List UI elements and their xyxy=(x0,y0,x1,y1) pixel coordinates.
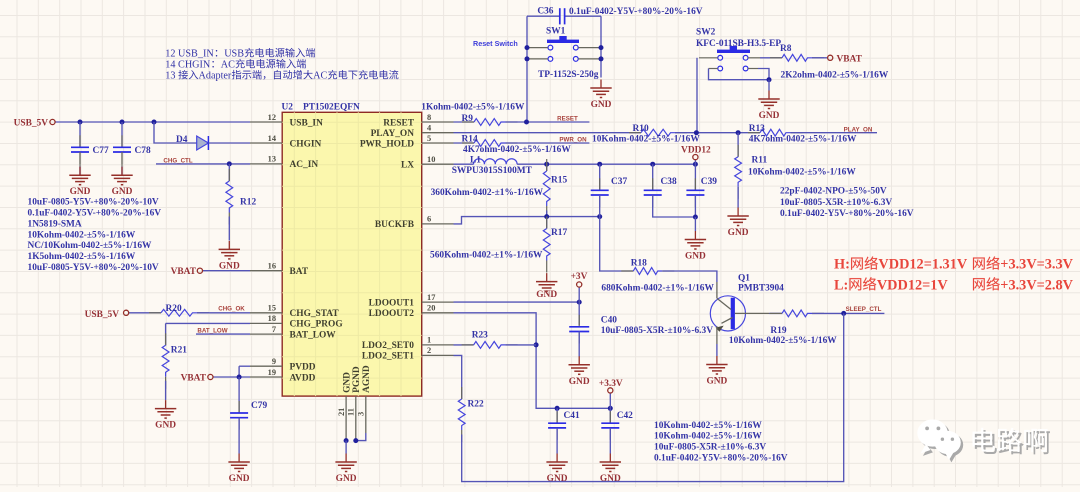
wire xyxy=(791,132,878,134)
svg-text:19: 19 xyxy=(268,368,276,377)
wire xyxy=(556,428,558,454)
wire xyxy=(578,302,580,325)
resistor R10 xyxy=(629,124,687,136)
svg-text:R12: R12 xyxy=(240,198,256,208)
svg-text:20: 20 xyxy=(427,304,435,313)
svg-text:USB: USB xyxy=(224,49,244,60)
capacitor C79 xyxy=(230,401,267,430)
junction xyxy=(608,406,613,411)
junction xyxy=(577,300,582,305)
svg-text:AVDD: AVDD xyxy=(290,373,316,383)
svg-text:AGND: AGND xyxy=(362,365,372,393)
svg-text:10uF-0805-X5R-±10%-6.3V: 10uF-0805-X5R-±10%-6.3V xyxy=(780,198,892,208)
wire xyxy=(526,16,528,122)
capacitor C39 xyxy=(686,177,717,207)
junction xyxy=(534,342,539,347)
svg-text:R18: R18 xyxy=(631,258,647,268)
ground xyxy=(536,273,557,300)
pin 12 USB_IN xyxy=(250,113,323,129)
pin 20 LDOOUT2 xyxy=(369,304,454,320)
svg-text:18: 18 xyxy=(268,314,276,323)
svg-text:4K7ohm-0402-±5%-1/16W: 4K7ohm-0402-±5%-1/16W xyxy=(463,145,571,155)
capacitor C42 xyxy=(601,411,633,440)
svg-text:PGND: PGND xyxy=(352,366,362,393)
svg-text:5: 5 xyxy=(427,134,431,143)
ground xyxy=(335,454,356,485)
pin 18 CHG_PROG xyxy=(250,314,343,330)
svg-text:6: 6 xyxy=(427,215,431,224)
svg-text:Q1: Q1 xyxy=(738,274,750,284)
wire xyxy=(565,15,601,17)
svg-text:CHG_STAT: CHG_STAT xyxy=(290,309,340,319)
switch SW1 xyxy=(529,27,599,81)
inductor L1 xyxy=(470,155,517,165)
svg-text:LDOOUT1: LDOOUT1 xyxy=(369,298,415,308)
svg-text:13: 13 xyxy=(268,155,276,164)
junction xyxy=(120,120,125,125)
junction xyxy=(227,161,232,166)
wire xyxy=(517,163,695,165)
wire xyxy=(653,195,696,217)
svg-text:+3.3V=2.8V: +3.3V=2.8V xyxy=(1000,277,1073,293)
junction xyxy=(736,130,741,135)
junction xyxy=(78,120,83,125)
junction xyxy=(599,56,604,61)
svg-text:Reset Switch: Reset Switch xyxy=(473,39,518,48)
wire xyxy=(454,344,474,346)
wire xyxy=(506,142,590,144)
resistor R14 xyxy=(462,135,518,147)
wire xyxy=(454,163,474,165)
resistor R22 xyxy=(458,387,484,442)
resistor R11 xyxy=(735,145,768,199)
junction xyxy=(525,56,530,61)
wire xyxy=(694,217,696,231)
wire xyxy=(156,163,250,165)
svg-text:AC_IN: AC_IN xyxy=(290,160,319,170)
resistor R23 xyxy=(462,331,518,349)
svg-text:PWR_HOLD: PWR_HOLD xyxy=(360,139,414,149)
wire xyxy=(462,313,844,481)
svg-text:AC: AC xyxy=(221,60,235,71)
svg-text:R20: R20 xyxy=(166,304,182,314)
wire xyxy=(121,122,123,147)
svg-text:GND: GND xyxy=(70,187,91,197)
svg-text:CHG_CTL: CHG_CTL xyxy=(163,157,192,164)
wire xyxy=(609,428,611,454)
svg-text:10Kohm-0402-±5%-1/16W: 10Kohm-0402-±5%-1/16W xyxy=(592,135,700,145)
svg-text:KFC-011SB-H3.5-EP: KFC-011SB-H3.5-EP xyxy=(696,39,781,49)
ground xyxy=(706,356,727,387)
svg-text:R17: R17 xyxy=(551,228,567,238)
wire xyxy=(228,164,230,181)
resistor R20 xyxy=(149,304,209,316)
svg-text:GND: GND xyxy=(155,421,176,431)
ground xyxy=(546,454,567,485)
ground xyxy=(569,356,590,387)
wire xyxy=(213,376,250,378)
ground xyxy=(219,241,240,272)
wire xyxy=(356,433,366,441)
svg-text:4K7ohm-0402-±5%-1/16W: 4K7ohm-0402-±5%-1/16W xyxy=(749,135,857,145)
svg-text:C77: C77 xyxy=(93,146,109,156)
svg-text:12 USB_IN: 12 USB_IN xyxy=(165,49,214,60)
svg-text:2K2ohm-0402-±5%-1/16W: 2K2ohm-0402-±5%-1/16W xyxy=(781,71,889,81)
svg-text:PVDD: PVDD xyxy=(290,363,316,373)
resistor R15 xyxy=(543,159,567,218)
wire xyxy=(79,122,81,147)
svg-text:16: 16 xyxy=(268,262,276,271)
wire xyxy=(737,187,739,208)
svg-text:C36: C36 xyxy=(537,7,553,17)
svg-text:GND: GND xyxy=(759,111,780,121)
power port VBAT xyxy=(181,374,213,384)
svg-text:RESET: RESET xyxy=(557,115,578,122)
wire xyxy=(228,217,230,241)
value labels C37 C38 C39 xyxy=(780,187,914,219)
power port VBAT xyxy=(171,267,203,277)
wire xyxy=(454,355,462,399)
ground xyxy=(155,400,176,431)
svg-text:21: 21 xyxy=(337,408,346,416)
resistor R9 xyxy=(462,114,518,126)
svg-text:10uF-0805-Y5V-+80%-20%-10V: 10uF-0805-Y5V-+80%-20%-10V xyxy=(28,263,159,273)
wire xyxy=(578,287,580,302)
svg-text:CHGIN: CHGIN xyxy=(290,139,322,149)
svg-text:10uF-0805-Y5V-+80%-20%-10V: 10uF-0805-Y5V-+80%-20%-10V xyxy=(28,198,159,208)
power port VDD12 xyxy=(681,146,711,160)
capacitor C41 xyxy=(548,411,580,440)
ground xyxy=(69,167,90,198)
wire xyxy=(600,217,634,271)
junction xyxy=(555,406,560,411)
junction xyxy=(693,215,698,220)
wire xyxy=(694,160,696,164)
svg-text:BAT: BAT xyxy=(290,267,309,277)
svg-text:12: 12 xyxy=(268,113,276,122)
wire xyxy=(454,132,642,134)
svg-text:10Kohm-0402-±5%-1/16W: 10Kohm-0402-±5%-1/16W xyxy=(729,336,837,346)
wire xyxy=(716,344,718,356)
pin 6 BUCKFB xyxy=(375,215,454,231)
svg-text:GND: GND xyxy=(342,372,352,393)
wire xyxy=(546,217,548,229)
power port +3.3V xyxy=(599,379,623,393)
wire xyxy=(454,217,600,224)
svg-text:R15: R15 xyxy=(551,176,567,186)
svg-text:C79: C79 xyxy=(251,401,267,411)
svg-text:PMBT3904: PMBT3904 xyxy=(738,284,784,294)
svg-text:LDO2_SET1: LDO2_SET1 xyxy=(362,352,414,362)
svg-text:680Kohm-0402-±1%-1/16W: 680Kohm-0402-±1%-1/16W xyxy=(601,283,714,293)
wire xyxy=(812,57,828,59)
svg-text:GND: GND xyxy=(728,228,749,238)
svg-text:11: 11 xyxy=(347,408,356,416)
wire xyxy=(196,333,250,335)
svg-text:C78: C78 xyxy=(135,146,151,156)
wire xyxy=(454,142,475,144)
svg-text:9: 9 xyxy=(272,357,276,366)
note annotation xyxy=(165,48,398,82)
ground xyxy=(228,454,249,485)
resistor R8 xyxy=(770,44,824,61)
svg-text:7: 7 xyxy=(272,325,276,334)
svg-text:USB_IN: USB_IN xyxy=(290,118,324,128)
junction xyxy=(767,77,772,82)
wire xyxy=(129,312,161,314)
value labels R22 R23 C41 C42 xyxy=(654,421,788,464)
power port +3V xyxy=(571,272,588,287)
svg-text:SW2: SW2 xyxy=(696,28,716,38)
pin 3 AGND xyxy=(357,365,372,433)
svg-text:BAT_LOW: BAT_LOW xyxy=(197,327,227,334)
wire xyxy=(546,164,548,171)
wire xyxy=(345,441,347,454)
svg-text:VDD12: VDD12 xyxy=(681,146,711,156)
pin 17 LDOOUT1 xyxy=(369,293,454,309)
svg-text:560Kohm-0402-±1%-1/16W: 560Kohm-0402-±1%-1/16W xyxy=(430,250,543,260)
capacitor C38 xyxy=(644,177,677,207)
wire xyxy=(675,132,760,134)
ground xyxy=(758,91,779,122)
wire xyxy=(609,393,611,408)
pin 9 PVDD xyxy=(250,357,316,373)
svg-text:GND: GND xyxy=(685,252,706,262)
junction xyxy=(544,214,549,219)
resistor R19 xyxy=(770,310,824,336)
svg-text:BAT_LOW: BAT_LOW xyxy=(290,330,337,340)
svg-text:2: 2 xyxy=(427,346,431,355)
svg-text:LX: LX xyxy=(401,161,414,171)
pin 21 GND xyxy=(337,372,352,441)
ground xyxy=(600,454,621,485)
wire xyxy=(238,366,240,377)
pin 11 PGND xyxy=(347,366,362,440)
wire xyxy=(166,322,250,324)
svg-text:GND: GND xyxy=(569,377,590,387)
svg-text:10Kohm-0402-±5%-1/16W: 10Kohm-0402-±5%-1/16W xyxy=(28,230,136,240)
junction xyxy=(237,375,242,380)
capacitor C40 xyxy=(569,315,617,344)
svg-text:CHG_PROG: CHG_PROG xyxy=(290,320,344,330)
svg-text:C40: C40 xyxy=(601,315,617,325)
svg-text:360Kohm-0402-±1%-1/16W: 360Kohm-0402-±1%-1/16W xyxy=(431,188,544,198)
resistor R18 xyxy=(621,258,674,274)
svg-text:SLEEP_CTL: SLEEP_CTL xyxy=(846,306,882,313)
svg-text:C42: C42 xyxy=(617,411,633,421)
svg-text:PWR_ON: PWR_ON xyxy=(559,137,587,144)
wire xyxy=(600,16,602,77)
wire xyxy=(662,271,717,282)
svg-text:10uF-0805-X5R-±10%-6.3V: 10uF-0805-X5R-±10%-6.3V xyxy=(654,443,766,453)
svg-text:GND: GND xyxy=(219,261,240,271)
wire xyxy=(506,344,536,346)
svg-text:L1: L1 xyxy=(470,155,481,165)
svg-text:17: 17 xyxy=(427,293,435,302)
pin 8 RESET xyxy=(383,113,453,129)
junction xyxy=(694,130,699,135)
svg-text:R9: R9 xyxy=(462,114,474,124)
svg-text:22pF-0402-NPO-±5%-50V: 22pF-0402-NPO-±5%-50V xyxy=(780,187,887,197)
svg-text:10Kohm-0402-±5%-1/16W: 10Kohm-0402-±5%-1/16W xyxy=(654,421,762,431)
pin 10 LX xyxy=(401,155,454,171)
svg-text:PLAY_ON: PLAY_ON xyxy=(844,126,873,133)
svg-text:10: 10 xyxy=(427,155,435,164)
svg-text:USB_5V: USB_5V xyxy=(85,310,120,320)
junction xyxy=(152,120,157,125)
svg-text:GND: GND xyxy=(536,290,557,300)
wire xyxy=(56,121,251,123)
svg-text:TP-1152S-250g: TP-1152S-250g xyxy=(538,70,599,80)
svg-text:GND: GND xyxy=(112,187,133,197)
capacitor C78 xyxy=(113,135,151,166)
wire xyxy=(238,418,240,454)
wire xyxy=(609,408,611,423)
svg-text:R11: R11 xyxy=(752,156,768,166)
pin 4 PLAY_ON xyxy=(371,124,454,140)
pin 19 AVDD xyxy=(250,368,316,384)
svg-text:GND: GND xyxy=(229,474,250,484)
wire xyxy=(208,142,250,144)
svg-text:VBAT: VBAT xyxy=(181,374,207,384)
junction xyxy=(693,162,698,167)
wire xyxy=(652,164,654,190)
resistor R21 xyxy=(162,333,187,389)
junction xyxy=(841,311,846,316)
svg-text:R21: R21 xyxy=(171,345,187,355)
svg-text:L:: L: xyxy=(834,277,848,293)
wire xyxy=(770,312,783,314)
svg-text:13: 13 xyxy=(165,71,175,82)
wire xyxy=(758,69,769,80)
wire xyxy=(812,312,884,314)
junction xyxy=(650,162,655,167)
svg-text:3: 3 xyxy=(357,412,366,416)
svg-text:C39: C39 xyxy=(701,177,717,187)
junction xyxy=(597,162,602,167)
svg-text:1Kohm-0402-±5%-1/16W: 1Kohm-0402-±5%-1/16W xyxy=(421,103,525,113)
svg-text:R19: R19 xyxy=(770,326,786,336)
wire xyxy=(737,133,739,157)
transistor Q1 PMBT3904 xyxy=(710,274,784,345)
wire xyxy=(79,167,81,176)
svg-text:SW1: SW1 xyxy=(546,27,566,37)
capacitor C77 xyxy=(71,135,109,166)
wire xyxy=(599,195,601,217)
svg-text:+3.3V=3.3V: +3.3V=3.3V xyxy=(1000,257,1073,273)
note H level voltages xyxy=(834,256,1074,272)
wire xyxy=(694,195,696,217)
svg-text:10Kohm-0402-±5%-1/16W: 10Kohm-0402-±5%-1/16W xyxy=(654,432,762,442)
svg-text:D4: D4 xyxy=(176,135,188,145)
svg-text:GND: GND xyxy=(591,100,612,110)
svg-text:AC: AC xyxy=(313,71,327,82)
svg-text:R23: R23 xyxy=(472,331,488,341)
wire xyxy=(760,57,782,59)
pin 5 PWR_HOLD xyxy=(360,134,454,150)
capacitor C36 xyxy=(537,7,564,25)
svg-text:PT1502EQFN: PT1502EQFN xyxy=(303,102,360,112)
svg-text:15: 15 xyxy=(268,304,276,313)
resistor R13 xyxy=(748,124,803,136)
svg-text:10uF-0805-X5R-±10%-6.3V: 10uF-0805-X5R-±10%-6.3V xyxy=(601,326,713,336)
IC U2 PT1502EQFN body xyxy=(282,102,422,396)
value labels list (left) xyxy=(28,198,162,273)
svg-text:LDOOUT2: LDOOUT2 xyxy=(369,309,415,319)
svg-text:VDD12=1.31V: VDD12=1.31V xyxy=(878,257,967,273)
svg-text:LDO2_SET0: LDO2_SET0 xyxy=(362,341,414,351)
junction xyxy=(597,214,602,219)
svg-text:SWPU3015S100MT: SWPU3015S100MT xyxy=(452,166,533,176)
svg-text:GND: GND xyxy=(336,474,357,484)
svg-text:PLAY_ON: PLAY_ON xyxy=(371,129,415,139)
pin 14 CHGIN xyxy=(250,134,322,150)
svg-text:1: 1 xyxy=(427,336,431,345)
svg-text:C38: C38 xyxy=(661,177,677,187)
svg-text:RESET: RESET xyxy=(383,118,414,128)
svg-text:CHG_OK: CHG_OK xyxy=(218,306,245,313)
svg-text:0.1uF-0402-Y5V-+80%-20%-16V: 0.1uF-0402-Y5V-+80%-20%-16V xyxy=(28,209,162,219)
svg-text:VBAT: VBAT xyxy=(171,267,197,277)
svg-text:R8: R8 xyxy=(780,44,792,54)
wire xyxy=(768,80,770,91)
pin 15 CHG_STAT xyxy=(250,304,339,320)
junction xyxy=(544,162,549,167)
junction xyxy=(524,120,529,125)
pin 7 BAT_LOW xyxy=(250,325,336,341)
svg-text:Adapter: Adapter xyxy=(199,71,232,82)
wire xyxy=(694,164,696,190)
wire xyxy=(578,332,580,357)
svg-text:R10: R10 xyxy=(633,124,649,134)
svg-text:NC/10Kohm-0402-±5%-1/16W: NC/10Kohm-0402-±5%-1/16W xyxy=(28,241,153,251)
junction xyxy=(525,45,530,50)
svg-text:1K5ohm-0402-±5%-1/16W: 1K5ohm-0402-±5%-1/16W xyxy=(28,252,136,262)
svg-text:VDD12=1V: VDD12=1V xyxy=(877,277,949,293)
wire xyxy=(165,323,167,345)
wire xyxy=(121,167,123,176)
svg-text:R13: R13 xyxy=(749,124,765,134)
wire xyxy=(165,381,167,400)
svg-text:14 CHGIN: 14 CHGIN xyxy=(165,60,211,71)
ground xyxy=(590,80,611,111)
junction xyxy=(599,45,604,50)
svg-text:0.1uF-0402-Y5V-+80%-20%-16V: 0.1uF-0402-Y5V-+80%-20%-16V xyxy=(569,7,703,17)
wire xyxy=(527,15,560,17)
svg-text:10Kohm-0402-±5%-1/16W: 10Kohm-0402-±5%-1/16W xyxy=(748,168,856,178)
svg-text:0.1uF-0402-Y5V-+80%-20%-16V: 0.1uF-0402-Y5V-+80%-20%-16V xyxy=(780,209,914,219)
svg-text:GND: GND xyxy=(706,377,727,387)
svg-text:14: 14 xyxy=(268,134,277,143)
wire xyxy=(203,270,250,272)
svg-text:R14: R14 xyxy=(462,135,478,145)
ground xyxy=(685,231,706,262)
svg-text:+3V: +3V xyxy=(571,272,588,282)
wire xyxy=(238,377,240,413)
resistor R17 xyxy=(543,217,567,273)
watermark logo 电路啊 xyxy=(917,419,1050,462)
pin 2 LDO2_SET1 xyxy=(362,346,454,362)
power port VBAT xyxy=(828,55,863,65)
svg-text:+3.3V: +3.3V xyxy=(599,379,623,389)
svg-text:GND: GND xyxy=(600,474,621,484)
svg-text:0.1uF-0402-Y5V-+80%-20%-16V: 0.1uF-0402-Y5V-+80%-20%-16V xyxy=(654,454,788,464)
pin 1 LDO2_SET0 xyxy=(362,336,454,352)
resistor R12 xyxy=(226,169,257,225)
ground xyxy=(111,167,132,198)
svg-text:C37: C37 xyxy=(611,177,627,187)
ground xyxy=(727,208,748,239)
